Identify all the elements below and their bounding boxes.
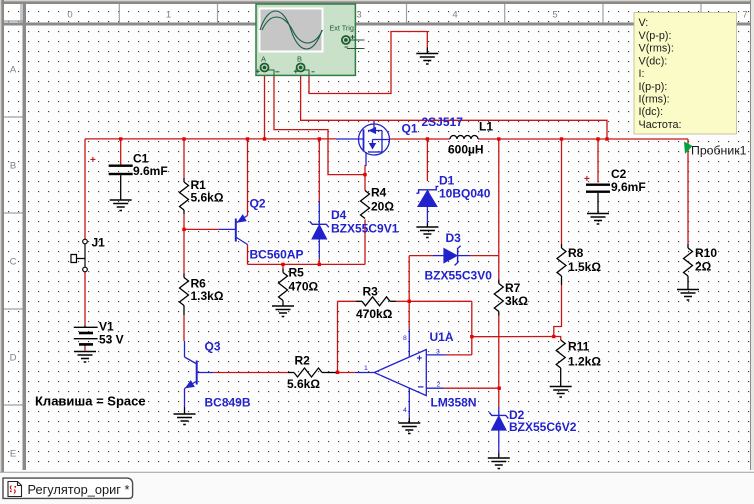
scope terminal B <box>297 64 305 72</box>
node D4 anode <box>318 263 321 266</box>
wire R8 bottom jog <box>554 285 562 337</box>
node Q1 drain <box>363 173 366 176</box>
node pin2-D2 <box>498 387 501 390</box>
wire R3 row to right <box>409 300 472 302</box>
svg-text:V:: V: <box>639 17 649 29</box>
battery V1 <box>74 326 98 345</box>
wire U1A pin4 ground stub <box>408 418 410 423</box>
wire feedback row <box>472 336 554 338</box>
U1A pin numbers <box>364 335 441 414</box>
transistor Q3 BC849B <box>185 341 214 407</box>
wire D2 ground stub <box>498 453 500 458</box>
svg-text:5.6kΩ: 5.6kΩ <box>287 377 320 391</box>
node R8-rail <box>560 137 563 140</box>
wire R3 left down <box>337 301 339 372</box>
ground Q3 <box>174 414 196 425</box>
svg-text:R10: R10 <box>695 246 717 260</box>
node pin3 feedback <box>470 335 473 338</box>
node R8-R11 <box>552 335 555 338</box>
wire main rail left section <box>85 138 336 140</box>
wire rail to D4 cathode <box>318 139 320 201</box>
wire R3 node to U1A pin8 <box>408 301 410 328</box>
wire rail to C1 <box>120 139 122 165</box>
svg-text:1.3kΩ: 1.3kΩ <box>191 289 224 303</box>
transistor Q1 2SJ517 P-MOSFET <box>336 121 390 166</box>
scope +/- marks and stubs <box>256 35 365 75</box>
svg-text:D1: D1 <box>439 174 455 188</box>
svg-text:V(rms):: V(rms): <box>639 43 674 55</box>
node R2-R3-out <box>336 371 339 374</box>
ground D2 <box>488 458 510 469</box>
wire L1 to output rail <box>478 138 688 140</box>
capacitor C2 <box>584 174 610 214</box>
svg-text:I(p-p):: I(p-p): <box>639 81 668 93</box>
wire R7 to pin2 node <box>498 316 500 389</box>
svg-text:R8: R8 <box>568 246 584 260</box>
svg-text:Ext Trig: Ext Trig <box>330 24 354 33</box>
node R7-rail <box>497 137 500 140</box>
wire D3 anode side <box>409 255 433 257</box>
wire D1 anode lead <box>426 206 428 223</box>
wire rail to R10 <box>687 139 689 244</box>
wire R11 bottom lead <box>560 368 562 387</box>
wire scope B minus to ground <box>309 32 427 94</box>
wire R3 right lead <box>390 300 396 302</box>
svg-text:0: 0 <box>67 10 72 21</box>
wire R3 left lead wire <box>338 300 357 302</box>
svg-text:10BQ040: 10BQ040 <box>439 187 491 201</box>
svg-text:Пробник1: Пробник1 <box>691 144 747 158</box>
node C1-rail <box>119 137 122 140</box>
resistor R2 <box>294 368 322 377</box>
wire R1 top lead <box>183 178 185 182</box>
svg-text:V1: V1 <box>99 320 114 334</box>
wire scope A minus to drain node <box>274 75 365 174</box>
wire rail to Q2 emitter <box>247 139 249 215</box>
svg-text:4: 4 <box>403 407 407 414</box>
resistor R6 <box>180 278 189 306</box>
svg-text:J1: J1 <box>92 236 106 250</box>
wire drain node to R4 top <box>364 175 366 191</box>
wire D4 anode lead <box>318 239 320 259</box>
svg-text:BZX55C6V2: BZX55C6V2 <box>509 420 577 434</box>
tab bar <box>0 473 754 504</box>
wire D3 cathode lead <box>458 255 470 257</box>
left ruler strip <box>4 4 23 470</box>
svg-text:R3: R3 <box>363 285 379 299</box>
wire R2 to Q3 base <box>214 372 288 374</box>
svg-text:7: 7 <box>742 10 747 21</box>
wire pin2 node to D2 <box>498 388 500 407</box>
node scopeB-rail <box>605 137 608 140</box>
svg-text:2Ω: 2Ω <box>695 260 712 274</box>
wire R5 bottom lead <box>282 301 284 307</box>
svg-text:A: A <box>10 65 17 76</box>
svg-text:R11: R11 <box>568 340 590 354</box>
wire D3 to R3 node <box>408 256 410 302</box>
wire R6 top lead <box>183 274 185 278</box>
svg-text:1.2kΩ: 1.2kΩ <box>568 355 601 369</box>
resistor R10 <box>684 248 693 276</box>
scope labels <box>261 24 354 64</box>
wire rail to J1 <box>84 139 86 239</box>
svg-text:V(p-p):: V(p-p): <box>639 30 672 42</box>
svg-text:BZX55C9V1: BZX55C9V1 <box>331 222 399 236</box>
wire R4 bottom <box>364 220 366 265</box>
wire R5 top lead <box>282 269 284 273</box>
diode D1 10BQ040 schottky <box>416 186 438 206</box>
wire to R11 top <box>554 337 561 341</box>
wire R6 to Q3 collector <box>183 315 185 341</box>
wire R10 top lead <box>687 244 689 248</box>
scope terminal A <box>261 64 269 72</box>
ground C1 <box>110 200 132 211</box>
wire down to pin3 corner <box>471 301 473 355</box>
diode D3 BZX55C3V0 zener <box>444 246 461 266</box>
probe readout box <box>634 13 737 135</box>
svg-text:3kΩ: 3kΩ <box>505 294 528 308</box>
wire rail to D1 cathode <box>426 139 428 181</box>
svg-text:Клавиша = Space: Клавиша = Space <box>35 394 146 409</box>
svg-text:L1: L1 <box>479 120 493 134</box>
ground R5 <box>272 306 294 317</box>
svg-text:+: + <box>417 354 423 365</box>
wire rail to R8 <box>561 139 563 244</box>
wire R10 bottom lead <box>687 276 689 290</box>
svg-text:470Ω: 470Ω <box>289 280 319 294</box>
wire U1A out to node <box>338 372 355 374</box>
svg-text:1: 1 <box>364 365 368 372</box>
svg-text:D: D <box>10 353 17 364</box>
node Q2 base <box>182 228 185 231</box>
svg-text:+: + <box>90 155 96 166</box>
svg-text:R5: R5 <box>289 266 305 280</box>
wire row to R5 <box>282 264 284 268</box>
resistor R1 <box>180 182 189 210</box>
wire rail to D3 node <box>498 139 500 256</box>
inductor L1 <box>450 136 478 140</box>
wire R7 bottom lead <box>498 312 500 316</box>
ground C2 <box>587 214 609 225</box>
wire R1 bottom lead <box>183 210 185 214</box>
ground R10 <box>677 290 699 301</box>
resistor R4 <box>361 191 370 219</box>
resistor R11 <box>556 340 565 368</box>
svg-text:2: 2 <box>437 382 441 389</box>
resistor R3 <box>362 297 390 306</box>
node D1-rail <box>426 137 429 140</box>
wire D1 ground stub <box>426 223 428 227</box>
probe arrow <box>684 142 693 155</box>
node R5 top <box>281 263 284 266</box>
sheet tab <box>3 478 133 498</box>
svg-text:E: E <box>10 449 16 460</box>
top ruler strip <box>4 4 750 23</box>
svg-text:Q1: Q1 <box>402 122 418 136</box>
svg-text:9.6mF: 9.6mF <box>611 180 646 194</box>
wire D4 anode to row <box>318 259 320 265</box>
resistor R7 <box>494 284 503 312</box>
svg-text:53 V: 53 V <box>99 333 124 347</box>
node scopeA-rail <box>263 137 266 140</box>
wire base node to Q2 base <box>184 228 220 230</box>
svg-text:B: B <box>297 55 302 64</box>
wire R1 to base node <box>183 214 185 229</box>
svg-text:Регулятор_ориг *: Регулятор_ориг * <box>28 482 130 497</box>
wire Q1 source to L1 <box>390 138 450 140</box>
svg-text:20Ω: 20Ω <box>371 200 394 214</box>
diode D4 BZX55C9V1 zener <box>310 221 329 239</box>
svg-text:V(dc):: V(dc): <box>639 55 668 67</box>
svg-text:C: C <box>10 257 17 268</box>
wire R3 left lead <box>356 300 362 302</box>
wire scope A to rail <box>264 72 266 139</box>
wire R8 bottom lead <box>561 276 563 285</box>
svg-text:R4: R4 <box>371 186 387 200</box>
wire D2 cathode lead <box>498 407 500 415</box>
wire scope B to Q1 top rail <box>301 75 607 138</box>
svg-text:U1A: U1A <box>430 330 454 344</box>
wire D3 cathode side <box>470 255 499 257</box>
ground U1A <box>398 423 420 434</box>
op-amp U1A LM358N <box>355 329 446 418</box>
svg-text:3: 3 <box>436 349 440 356</box>
wire D3 anode lead <box>433 255 444 257</box>
wire V1 to ground <box>84 345 86 351</box>
wire D3 node to R7 <box>498 256 500 280</box>
svg-text:R7: R7 <box>505 281 521 295</box>
wire R6 bottom lead <box>183 306 185 316</box>
svg-text:9.6mF: 9.6mF <box>133 164 168 178</box>
wire Q1 drain stub <box>364 165 366 175</box>
ground scope <box>416 54 438 65</box>
svg-text:C2: C2 <box>611 167 627 181</box>
svg-text:Q3: Q3 <box>205 340 221 354</box>
wire R7 top lead <box>498 280 500 284</box>
svg-text:BC560AP: BC560AP <box>250 248 304 262</box>
wire D2 anode lead <box>498 430 500 453</box>
svg-text:Q2: Q2 <box>250 197 266 211</box>
node C2-rail <box>596 137 599 140</box>
svg-text:LM358N: LM358N <box>431 396 477 410</box>
wire rail to R1 <box>183 139 185 178</box>
ground V1 <box>74 352 96 363</box>
oscilloscope XSC1 <box>256 4 355 75</box>
svg-text:I:: I: <box>639 68 645 80</box>
svg-text:5.6kΩ: 5.6kΩ <box>191 191 224 205</box>
wire node Q2-D4-R4 row <box>248 263 366 265</box>
node D4-rail <box>318 137 321 140</box>
svg-text:5: 5 <box>552 10 557 21</box>
wire rail to C2 <box>597 139 599 183</box>
switch J1 <box>71 239 87 272</box>
svg-text:BZX55C3V0: BZX55C3V0 <box>425 269 493 283</box>
wire to U1A pin3 <box>446 354 472 356</box>
wire U1A pin2 row <box>444 387 499 389</box>
wire D4 cathode lead <box>318 201 320 224</box>
svg-text:4: 4 <box>452 10 457 21</box>
diode D2 BZX55C6V2 zener <box>489 412 508 430</box>
svg-text:R2: R2 <box>295 354 311 368</box>
wire Q3 emitter ground stub <box>184 407 186 414</box>
resistor R8 <box>557 248 566 276</box>
svg-text:1.5kΩ: 1.5kΩ <box>568 260 601 274</box>
svg-text:2SJ517: 2SJ517 <box>422 115 464 129</box>
svg-text:8: 8 <box>403 335 407 342</box>
wire node to R2 <box>322 372 338 374</box>
wire R2 left lead <box>288 372 294 374</box>
node R3-pin8 <box>408 300 411 303</box>
capacitor C1 <box>90 155 133 200</box>
svg-text:BC849B: BC849B <box>205 396 251 410</box>
svg-text:D3: D3 <box>446 231 462 245</box>
wire J1 to V1 <box>84 272 86 326</box>
scope terminal Ext Trig <box>342 36 350 44</box>
node Q2e-rail <box>246 137 249 140</box>
wire stub scope ground <box>426 48 428 54</box>
ground R11 <box>550 387 572 398</box>
svg-text:3: 3 <box>356 10 361 21</box>
svg-text:600µH: 600µH <box>448 143 484 157</box>
node R1-rail <box>182 137 185 140</box>
ground D1 <box>416 227 438 238</box>
svg-text:A: A <box>261 55 266 64</box>
svg-text:I(rms):: I(rms): <box>639 94 670 106</box>
svg-text:+: + <box>584 174 590 185</box>
resistor R5 <box>279 273 288 301</box>
wire R8 top lead <box>561 244 563 248</box>
svg-text:−: − <box>418 382 424 394</box>
wire R3 right lead wire <box>396 300 409 302</box>
svg-text:470kΩ: 470kΩ <box>356 307 393 321</box>
svg-text:B: B <box>10 161 16 172</box>
svg-text:Частота:: Частота: <box>639 119 682 131</box>
svg-text:D4: D4 <box>331 208 347 222</box>
svg-text:I(dc):: I(dc): <box>639 106 664 118</box>
tab icon <box>8 482 22 497</box>
wire base node to R6 <box>183 229 185 273</box>
svg-text:1: 1 <box>166 10 171 21</box>
wire Q2 collector down <box>247 245 249 265</box>
transistor Q2 BC560AP <box>220 215 248 245</box>
